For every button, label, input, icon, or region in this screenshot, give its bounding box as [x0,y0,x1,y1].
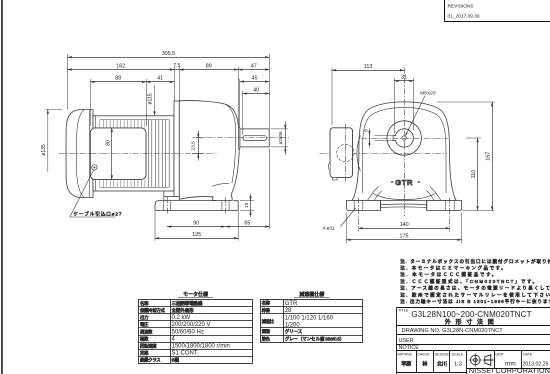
svg-text:1/200: 1/200 [285,322,301,328]
dimension 175 [347,239,462,241]
svg-text:G3L28N100~200-CNM020TNCT: G3L28N100~200-CNM020TNCT [411,310,531,319]
dimension 15 foot height [240,201,254,211]
gearbox dome front outline [352,102,456,201]
svg-text:絶縁クラス: 絶縁クラス [140,357,160,364]
gearbox dome inner contour [362,107,446,193]
svg-text:40: 40 [253,87,259,93]
shaft keyway notch [393,135,396,140]
svg-text:USER: USER [399,338,414,344]
svg-text:DRAWING NO. G3L28N-CNM020TNCT: DRAWING NO. G3L28N-CNM020TNCT [402,328,504,334]
terminal box side view [90,128,146,180]
casting rib right [426,187,442,205]
svg-text:305.5: 305.5 [162,51,176,57]
svg-text:潤滑: 潤滑 [262,328,271,335]
svg-text:167: 167 [486,152,492,161]
fan cover circle arc behind gearbox [357,136,360,172]
extension lines front view bottom [347,213,462,244]
reducer spec table [261,300,363,343]
fan cover seam line [76,110,84,198]
dimension 45 [240,81,269,83]
side view motor centerline [59,153,217,155]
motor frame inner edge line [95,116,97,191]
dimension 89 [179,69,238,71]
dimension 167 [492,102,494,211]
svg-text:回転速度: 回転速度 [140,343,157,350]
dimension 162 [68,69,174,71]
svg-text:80: 80 [105,140,111,146]
title block frame [397,308,550,374]
svg-text:41: 41 [157,76,163,82]
svg-text:ø115: ø115 [148,93,154,104]
fins top edge line [100,119,170,121]
sheet left border line [1,0,3,374]
svg-text:TITLE: TITLE [398,309,409,313]
shaft circle [395,129,413,147]
dimension 31 [394,80,413,82]
terminal box front view [330,128,353,178]
dimension 90 [167,226,226,228]
4-dia11 leader [340,208,356,227]
dimension 40 [243,93,269,95]
svg-text:125: 125 [192,232,201,238]
svg-text:モータ仕様: モータ仕様 [183,291,208,298]
svg-text:グリース: グリース [285,328,303,335]
casting rib left [366,187,382,205]
dimension 88 [90,81,146,83]
motor foot side view [164,191,174,201]
svg-text:175: 175 [400,234,409,240]
casting waist line [373,194,435,200]
svg-text:定格: 定格 [140,350,149,357]
dimension 305.5 [68,57,270,59]
dimension 125 [155,238,238,240]
svg-text:113: 113 [364,64,373,70]
svg-text:減速機仕様: 減速機仕様 [299,291,324,298]
svg-text:UNIT: UNIT [496,352,505,356]
svg-text:萃原: 萃原 [401,360,411,368]
svg-text:01_2017.09.30: 01_2017.09.30 [448,14,480,20]
fan cover rim line [89,110,91,198]
terminal box drain [333,177,338,180]
svg-text:名称: 名称 [262,300,271,307]
svg-text:31: 31 [401,75,407,81]
svg-text:枠番: 枠番 [262,307,271,314]
terminal box lid screw [92,165,97,170]
svg-text:保護冷却方式: 保護冷却方式 [140,307,165,314]
svg-text:23.5: 23.5 [190,141,196,151]
bolt centerline right [225,197,227,214]
dimension 7.5 [174,69,179,71]
gear adapter flange [174,101,179,197]
gearbox case side outline [179,101,239,201]
cable entry leader line [70,170,116,217]
dimension 23.5 [192,138,204,153]
svg-text:外 形 寸 法 図: 外 形 寸 法 図 [445,318,495,326]
base plate front view [347,201,462,211]
svg-text:注. 出力軸キー寸法は JIS B 1301−1996平行キ: 注. 出力軸キー寸法は JIS B 1301−1996平行キーに依ります。 [400,298,550,305]
dimension 110 [477,138,479,211]
front view motor centerline [320,153,448,155]
foot bolt slot right [222,201,229,211]
svg-text:REVISIONS: REVISIONS [448,4,474,10]
dimension 113 [332,70,404,72]
svg-text:0.2 kW: 0.2 kW [172,315,191,321]
svg-text:北川: 北川 [437,360,447,368]
svg-text:周波数: 周波数 [140,328,153,335]
dimension 80 terminal box height [111,128,113,180]
svg-text:極数: 極数 [140,335,149,342]
svg-text:全閉外扇形: 全閉外扇形 [172,307,195,314]
svg-text:グレー（マンセル値 9B6/0.5）: グレー（マンセル値 9B6/0.5） [285,335,344,342]
svg-text:28: 28 [285,308,292,314]
dimension 65 [226,226,270,228]
svg-text:林: 林 [422,360,428,368]
svg-text:注. 欧州で認定されたサーマルリレーを使用して下さい。: 注. 欧州で認定されたサーマルリレーを使用して下さい。 [400,291,550,298]
svg-text:8: 8 [363,129,369,132]
svg-text:89: 89 [206,63,212,69]
extension lines front view top [332,68,495,211]
foot pad inner edge right [426,201,428,211]
extension lines bottom side view [155,149,269,241]
svg-text:M8X20: M8X20 [420,91,436,97]
foot slot right front [446,201,455,211]
motor fan cover [66,110,93,198]
side view output shaft centerline [196,137,290,139]
svg-text:45: 45 [252,75,258,81]
terminal box gland bump [328,164,330,170]
svg-text:名称: 名称 [140,300,149,307]
svg-text:注. 本モータはＣＥマーキング品です。: 注. 本モータはＣＥマーキング品です。 [400,265,507,272]
dimension 47 [238,69,269,71]
svg-text:塗色: 塗色 [262,335,271,341]
svg-text:ø28h6: ø28h6 [278,131,283,144]
dimension 140 [359,228,450,230]
foot slot centerline right [449,198,451,232]
motor spec table [139,300,253,364]
svg-text:4-ø11: 4-ø11 [323,225,336,231]
dimension dia115 [154,86,156,116]
shaft keyway slot [243,135,267,140]
motor body frame [93,116,174,191]
dimension 8 keyway [375,135,394,140]
dimension dia28h6 [271,129,288,147]
front view vertical centerline [404,68,406,217]
dimension dia135 [46,109,63,171]
M8X20 leader [405,96,425,136]
svg-text:注. アース線の長さは、モータの電源リードより長くして下さい: 注. アース線の長さは、モータの電源リードより長くして下さい。 [400,285,550,292]
svg-text:1500/1800/1800 r/min: 1500/1800/1800 r/min [172,344,230,350]
revisions box top right [445,0,550,22]
svg-text:1:3: 1:3 [454,362,462,368]
svg-text:出力: 出力 [140,314,148,321]
M8 tap hole circle [402,136,406,140]
svg-text:APPRVE: APPRVE [398,352,413,356]
svg-text:NISSEI CORPORATION: NISSEI CORPORATION [469,366,550,374]
svg-text:S1 CONT.: S1 CONT. [172,351,199,357]
output shaft boss [238,128,240,149]
terminal box vertical centerline [345,124,347,182]
foot slot left front [354,201,363,211]
extension lines top side view [68,54,270,135]
svg-text:注. ＣＣＣ認証型式は、「CNM020TNCT」です。: 注. ＣＣＣ認証型式は、「CNM020TNCT」です。 [400,278,538,285]
svg-text:65: 65 [244,220,250,226]
svg-text:47: 47 [251,63,257,69]
svg-text:50/60/60 Hz: 50/60/60 Hz [172,329,204,335]
cable hole hidden circle [337,144,354,161]
svg-text:B種: B種 [172,357,180,364]
motor cooling fins [100,120,145,187]
svg-text:三相誘導電動機: 三相誘導電動機 [172,300,203,307]
svg-text:減速比: 減速比 [262,318,275,325]
svg-text:注. 本モータはＣＣＣ認証品です。: 注. 本モータはＣＣＣ認証品です。 [400,271,498,278]
svg-text:注. ターミナルボックスの引出口には膜付グロメットが取り付け: 注. ターミナルボックスの引出口には膜付グロメットが取り付けてあります。 [400,258,550,265]
svg-text:7.5: 7.5 [173,63,180,69]
shaft boss circle [387,121,421,155]
base foot pad side view [155,201,238,211]
dimension 41 [146,81,174,83]
fins bottom edge line [100,187,170,189]
gearbox underside seam [212,183,229,186]
svg-text:ø135: ø135 [41,144,47,156]
svg-text:GTR: GTR [285,301,298,307]
third angle projection symbol [469,353,494,367]
svg-text:ケーブル引込口ø27: ケーブル引込口ø27 [74,211,123,218]
foot pad inner edge left [380,201,382,211]
svg-text:15: 15 [244,202,250,208]
foot bolt slot left [163,201,170,211]
output shaft side view [240,129,269,147]
svg-text:1/100 1/120 1/160: 1/100 1/120 1/160 [285,315,334,321]
bolt centerline left [167,197,169,214]
svg-text:90: 90 [193,220,199,226]
svg-text:SCALE: SCALE [452,352,464,356]
svg-text:DESIGN: DESIGN [435,352,449,356]
gearbox case inner contour [226,104,236,183]
svg-text:CHECK: CHECK [417,352,430,356]
svg-text:140: 140 [400,222,409,228]
foot slot centerline left [358,198,360,232]
svg-text:DATE: DATE [523,352,533,356]
svg-text:88: 88 [115,76,121,82]
svg-text:NOTICE: NOTICE [399,345,420,351]
front view shaft horizontal centerline [361,138,448,140]
svg-text:162: 162 [116,63,125,69]
svg-text:110: 110 [471,170,477,179]
svg-text:GTR: GTR [395,178,413,187]
base middle band [381,204,427,208]
svg-text:200/200/220 V: 200/200/220 V [172,322,211,328]
